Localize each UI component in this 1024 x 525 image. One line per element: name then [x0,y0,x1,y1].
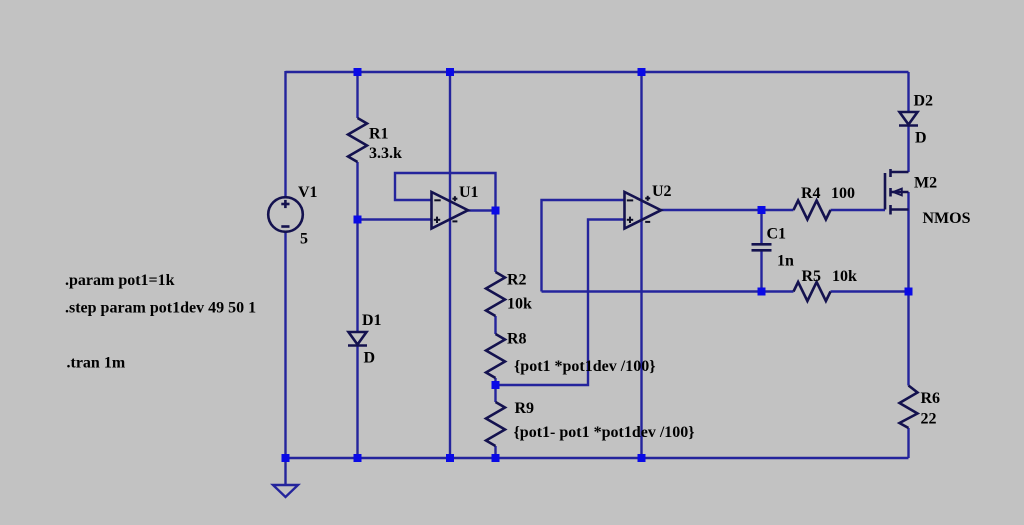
wire node to R9 [494,385,496,402]
svg-text:U1: U1 [459,184,479,201]
wire M2 source down [907,210,909,292]
wire R2 to R8 [494,316,496,334]
wire V1 bottom to ground rail [284,232,286,458]
node R1 / U1 plus input [354,216,362,224]
wire R8 to node [494,378,496,385]
node top rail / U2 supply [638,68,646,76]
svg-text:M2: M2 [914,175,937,192]
svg-text:.param pot1=1k: .param pot1=1k [65,272,175,289]
wire U1 supply vertical [449,72,451,458]
op-amp U1 [432,192,469,229]
svg-text:10k: 10k [507,296,532,313]
svg-text:5: 5 [300,231,308,248]
node bottom rail / U2 supply [638,454,646,462]
voltage source V1 [268,197,303,232]
op-amp U2 [625,192,662,229]
svg-text:R4: R4 [801,185,821,202]
resistor R8 [486,334,505,378]
resistor R9 [486,402,505,446]
svg-text:{pot1 *pot1dev /100}: {pot1 *pot1dev /100} [514,358,656,375]
svg-text:1n: 1n [777,253,794,270]
svg-text:U2: U2 [652,183,672,200]
wire D1 to bottom rail [356,346,358,459]
node top rail / U1 supply [446,68,454,76]
ground [273,485,298,497]
svg-text:C1: C1 [767,226,787,243]
wire V1 top [284,71,286,197]
resistor R2 [486,272,505,316]
svg-text:R1: R1 [369,126,389,143]
wire C1 top lead [760,210,762,244]
wire R8R9 node to U2 plus input [496,220,625,386]
node M2 source / R5 / R6 [905,288,913,296]
svg-text:22: 22 [921,411,937,428]
svg-text:R2: R2 [507,272,527,289]
wire D2 to M2 drain [907,126,909,173]
svg-text:NMOS: NMOS [923,210,971,227]
wire U2 output to C1 node [661,209,762,211]
wire R9 to bottom rail [494,446,496,458]
capacitor C1 [752,244,772,250]
wire ground stub [284,458,286,485]
svg-text:10k: 10k [832,268,857,285]
transistor M2 [885,169,909,215]
node bottom rail / U1 supply [446,454,454,462]
svg-text:.tran 1m: .tran 1m [67,355,126,372]
wire U1 output [468,209,496,211]
svg-text:D1: D1 [362,312,382,329]
wire U1 out to R2 [494,211,496,272]
svg-text:100: 100 [831,185,855,202]
svg-text:{pot1- pot1 *pot1dev /100}: {pot1- pot1 *pot1dev /100} [514,424,695,441]
svg-text:R9: R9 [515,400,535,417]
node top rail / R1 [354,68,362,76]
wire top rail [286,71,909,73]
wire U2 supply vertical [640,72,642,458]
wire R6 to bottom rail [907,428,909,458]
op-amp U2 pin polarity marks [627,196,650,223]
resistor R5 [794,282,831,301]
wire source node to R6 [907,292,909,386]
svg-text:3.3.k: 3.3.k [369,145,402,162]
wire U2 inverting input loop [542,200,625,292]
wire D2 branch top [907,72,909,112]
node U2 output / C1 [758,206,766,214]
svg-text:D: D [364,350,376,367]
svg-text:D2: D2 [914,93,934,110]
resistor R6 [900,386,918,429]
wire U1 feedback loop [395,173,496,211]
node U1 output [492,207,500,215]
wire lower feedback rail to R5 [542,290,794,292]
wire C1 node to R4 [762,209,794,211]
svg-text:R8: R8 [507,331,527,348]
wire R4 to M2 gate [831,209,886,211]
svg-text:.step param pot1dev 49 50 1: .step param pot1dev 49 50 1 [65,300,256,317]
svg-text:R5: R5 [802,268,822,285]
diode D2 [899,112,918,126]
svg-text:R6: R6 [921,390,941,407]
svg-text:D: D [915,130,927,147]
resistor R4 [794,201,831,220]
node bottom rail / ground [282,454,290,462]
svg-text:V1: V1 [298,184,318,201]
wire C1 bottom lead [760,251,762,292]
wire R1 to D1 [356,162,358,332]
node bottom rail / R9 [492,454,500,462]
wire U1 noninverting input [358,218,432,220]
wire M2 body-source [907,192,909,210]
node C1 bottom / feedback rail [758,288,766,296]
wire bottom rail [286,457,909,459]
node bottom rail / D1 [354,454,362,462]
resistor R1 [348,118,367,162]
op-amp U1 pin polarity marks [434,196,458,223]
node R8 / R9 [492,381,500,389]
wire R5 to M2 source node [831,290,909,292]
wire R1 branch top [356,72,358,118]
diode D1 [348,332,367,346]
